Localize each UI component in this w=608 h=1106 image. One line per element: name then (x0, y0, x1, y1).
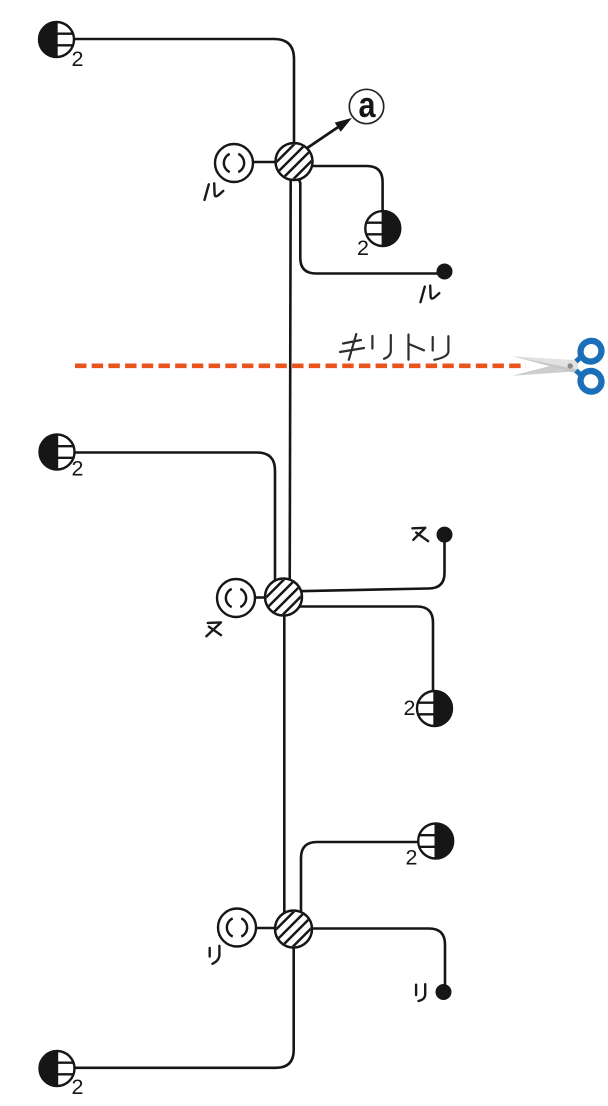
svg-text:2: 2 (72, 1075, 84, 1099)
svg-text:2: 2 (406, 846, 418, 870)
svg-text:2: 2 (72, 457, 84, 481)
svg-text:2: 2 (357, 236, 369, 260)
svg-text:a: a (359, 84, 377, 125)
svg-text:2: 2 (72, 47, 84, 71)
svg-text:2: 2 (404, 696, 416, 720)
